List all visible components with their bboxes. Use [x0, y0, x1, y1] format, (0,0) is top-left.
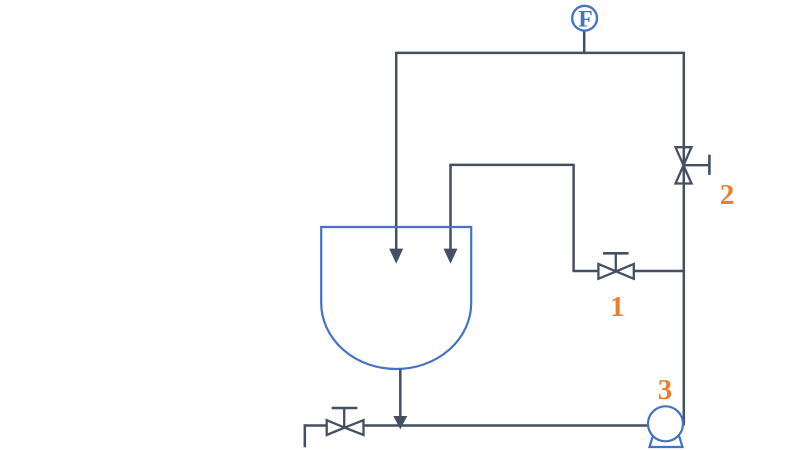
pump P3 base (trapezoid)	[650, 434, 683, 447]
instrument F stem	[583, 31, 586, 53]
arrowhead: inner feed into tank	[444, 249, 458, 264]
wire: bottom pipe to pump suction	[364, 424, 649, 427]
instrument F bubble (flow indicator)	[572, 6, 597, 31]
wire: bottom pipe left segment	[305, 424, 327, 427]
valve V2 handle stem	[684, 164, 710, 166]
wire: inner feed drop into tank	[449, 164, 452, 250]
svg-text:1: 1	[610, 291, 625, 323]
svg-text:3: 3	[658, 374, 673, 406]
valve V4 handle bar	[332, 407, 358, 410]
wire: right riser (header to pump)	[683, 52, 686, 426]
valve V1 handle stem	[615, 253, 617, 271]
valve V4 body (bowtie, bottom-left)	[327, 420, 364, 435]
svg-text:F: F	[578, 6, 592, 32]
tank T1 (vessel, flat top, round bottom)	[321, 227, 471, 369]
valve V4 handle stem	[343, 408, 345, 428]
pump P3 casing (circle)	[648, 406, 683, 441]
valve V1 handle bar	[603, 252, 629, 255]
wire: recycle to valve 1	[572, 270, 598, 273]
wire: bottom pipe inlet drop	[304, 424, 307, 447]
arrowhead: tank outlet into bottom pipe	[393, 416, 407, 429]
valve V1 body (bowtie)	[598, 264, 633, 279]
valve V2 handle bar	[708, 155, 711, 175]
wire: left feed drop into tank	[395, 52, 398, 250]
wire: inner header horizontal	[451, 164, 574, 167]
arrowhead: left feed into tank	[389, 249, 403, 264]
wire: recycle down leg	[572, 164, 575, 271]
wire: valve 1 to riser	[634, 270, 684, 273]
svg-text:2: 2	[720, 179, 735, 211]
valve V2 body (bowtie, vertical)	[676, 147, 692, 183]
wire: tank outlet drop	[399, 369, 402, 416]
wire: top header pipe	[396, 52, 684, 55]
